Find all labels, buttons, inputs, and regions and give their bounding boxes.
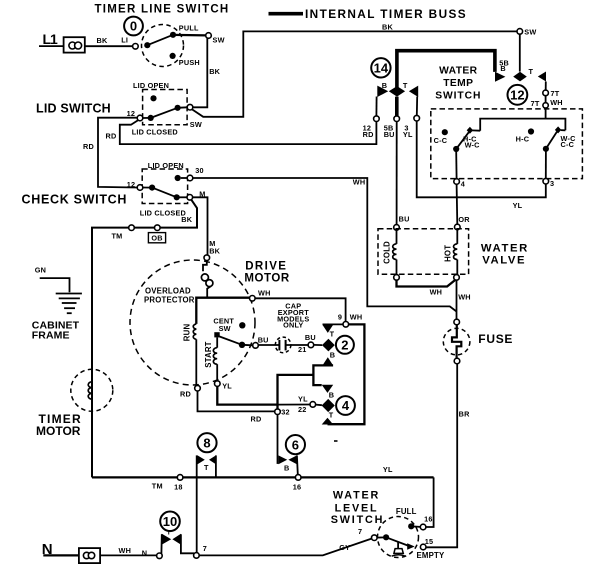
wire 3 YL to water temp switch 3 bbox=[417, 121, 546, 197]
label WH bbox=[119, 546, 132, 555]
svg-text:7T: 7T bbox=[531, 99, 540, 108]
label H-C bbox=[516, 134, 530, 143]
label W-C bbox=[465, 141, 481, 150]
svg-text:RD: RD bbox=[83, 142, 94, 151]
label C-C bbox=[434, 136, 448, 145]
svg-text:PUSH: PUSH bbox=[179, 58, 200, 67]
svg-text:B: B bbox=[284, 463, 289, 472]
svg-text:YL: YL bbox=[222, 382, 232, 391]
label BK bbox=[209, 67, 220, 76]
lid switch contact dot at SW bbox=[175, 105, 188, 111]
svg-text:EMPTY: EMPTY bbox=[417, 551, 445, 560]
svg-text:10: 10 bbox=[163, 514, 177, 529]
terminal BU (motor) bbox=[253, 343, 259, 349]
title FUSE bbox=[478, 332, 513, 346]
svg-text:LID CLOSED: LID CLOSED bbox=[140, 208, 186, 217]
wire BK timer SW down to lid switch bbox=[193, 38, 207, 107]
svg-text:SW: SW bbox=[213, 35, 225, 44]
cam number 0 bbox=[124, 17, 143, 36]
label 7 bbox=[358, 527, 362, 536]
svg-text:DRIVE: DRIVE bbox=[245, 260, 287, 272]
svg-text:OB: OB bbox=[151, 234, 162, 243]
svg-text:INTERNAL TIMER BUSS: INTERNAL TIMER BUSS bbox=[305, 7, 467, 21]
label L1 bbox=[43, 31, 59, 47]
cam 2 T contact triangle bbox=[323, 325, 334, 333]
ground symbol cabinet frame bbox=[56, 294, 82, 314]
svg-text:MOTOR: MOTOR bbox=[244, 272, 289, 284]
label H-C bbox=[463, 134, 477, 143]
wire fuse node vertical bbox=[456, 280, 458, 319]
stray dash bbox=[334, 440, 338, 442]
terminal 16 FULL bbox=[420, 524, 426, 530]
svg-text:16: 16 bbox=[424, 514, 433, 523]
svg-text:LID SWITCH: LID SWITCH bbox=[36, 101, 111, 115]
label HOT (rotated) bbox=[443, 245, 452, 262]
label RD bbox=[83, 142, 94, 151]
label BU bbox=[399, 215, 410, 224]
label 15 bbox=[425, 537, 434, 546]
wire RD lid 12 to timer cam 14 bbox=[120, 120, 377, 144]
label 9 bbox=[338, 313, 342, 322]
wire 32 down to cam 6 bbox=[277, 415, 279, 464]
drive motor dashed circle bbox=[130, 260, 255, 385]
svg-text:BU: BU bbox=[399, 215, 410, 224]
svg-text:FRAME: FRAME bbox=[32, 329, 70, 341]
svg-text:TIMER LINE SWITCH: TIMER LINE SWITCH bbox=[95, 4, 230, 16]
svg-text:CHECK SWITCH: CHECK SWITCH bbox=[22, 193, 128, 207]
cam 4 T contact triangle bbox=[322, 418, 334, 425]
svg-text:YL: YL bbox=[403, 130, 413, 139]
label LID OPEN bbox=[148, 161, 184, 170]
terminal 12 (lid switch) bbox=[137, 115, 143, 121]
run winding bbox=[193, 324, 196, 385]
wire 22 to junction bbox=[278, 404, 311, 406]
label T bbox=[167, 530, 171, 537]
cam 6 right contact flag bbox=[288, 455, 297, 464]
fuse dashed circle bbox=[443, 328, 470, 355]
svg-text:SWITCH: SWITCH bbox=[331, 514, 384, 526]
svg-text:12: 12 bbox=[510, 87, 524, 102]
label T bbox=[330, 330, 335, 339]
cam 12 T stub bbox=[545, 82, 547, 91]
svg-text:BK: BK bbox=[382, 22, 393, 31]
terminal 15 EMPTY bbox=[420, 544, 426, 550]
left switch arm bbox=[456, 132, 469, 149]
cam number 12 bbox=[508, 85, 528, 105]
title TIMER MOTOR bbox=[36, 412, 82, 438]
wire WH N block to cam 10 bbox=[100, 554, 156, 556]
svg-text:8: 8 bbox=[203, 435, 210, 450]
wire 7T into bar bbox=[545, 108, 547, 119]
wire M to motor (BK) bbox=[193, 197, 208, 255]
check switch contact dot at 12 bbox=[143, 185, 155, 191]
label T bbox=[403, 81, 408, 90]
svg-text:T: T bbox=[330, 330, 335, 339]
terminal SW (buss) bbox=[517, 29, 523, 35]
svg-text:YL: YL bbox=[513, 201, 523, 210]
cam 2 follower diamond bbox=[322, 339, 335, 352]
terminal cold bottom bbox=[394, 275, 400, 281]
svg-text:WH: WH bbox=[458, 292, 471, 301]
terminal 9 WH bbox=[343, 322, 349, 328]
label B bbox=[500, 64, 505, 73]
label C-C bbox=[561, 140, 575, 149]
bellows element bbox=[392, 542, 406, 556]
label WH bbox=[258, 289, 271, 298]
label 4 bbox=[461, 179, 466, 188]
label 12 bbox=[127, 180, 136, 189]
svg-text:BU: BU bbox=[305, 333, 316, 342]
svg-text:WH: WH bbox=[353, 177, 366, 186]
cam 12 B contact triangle bbox=[495, 72, 505, 82]
label 22 bbox=[298, 405, 307, 414]
svg-text:9: 9 bbox=[338, 313, 342, 322]
cam 4 B contact triangle bbox=[322, 385, 334, 393]
terminal block L1 bbox=[64, 37, 85, 52]
ground wire GN bbox=[40, 278, 70, 292]
full contact dot bbox=[408, 523, 420, 529]
label B bbox=[329, 390, 334, 399]
terminal 22 bbox=[310, 402, 316, 408]
wire RD motor to 32 bbox=[198, 391, 275, 411]
title WATER VALVE bbox=[481, 243, 529, 267]
wire 5B BU down to water valve bbox=[396, 122, 398, 225]
label 5B BU bbox=[384, 123, 395, 139]
wire 9 to cam 2 T bbox=[323, 323, 343, 325]
label LID OPEN bbox=[133, 81, 169, 90]
terminal 7T bbox=[543, 90, 549, 96]
label WH bbox=[458, 292, 471, 301]
terminal BU (water valve) bbox=[394, 225, 400, 231]
svg-text:T: T bbox=[329, 411, 334, 420]
cent switch arm bbox=[218, 336, 242, 345]
wire BK from L1 block to switch bbox=[85, 45, 133, 47]
svg-text:BK: BK bbox=[181, 215, 192, 224]
wire SW to cam 12 bbox=[519, 34, 521, 71]
svg-text:B: B bbox=[382, 81, 387, 90]
svg-text:RD: RD bbox=[363, 130, 374, 139]
left switch contact dot bbox=[453, 146, 459, 152]
svg-text:0: 0 bbox=[130, 19, 137, 34]
wire left contact to terminal 4 bbox=[455, 152, 457, 179]
svg-text:YL: YL bbox=[298, 395, 308, 404]
label 7T bbox=[551, 89, 560, 98]
svg-text:GN: GN bbox=[35, 266, 46, 275]
svg-text:7T: 7T bbox=[551, 89, 560, 98]
svg-text:SW: SW bbox=[219, 324, 231, 333]
svg-text:C-C: C-C bbox=[561, 140, 575, 149]
label COLD (rotated) bbox=[382, 241, 391, 264]
svg-text:BU: BU bbox=[258, 336, 269, 345]
cam 8 right contact flag bbox=[209, 455, 216, 464]
water level switch pivot dot bbox=[377, 534, 389, 540]
terminal 5B BU bbox=[394, 116, 400, 122]
wire TM from check M bbox=[92, 200, 197, 478]
cam 14 B contact triangle bbox=[377, 86, 388, 97]
fuse bottom terminal bbox=[454, 358, 460, 364]
svg-text:WH: WH bbox=[430, 287, 443, 296]
cam 8 left stub down to terminal 7 bbox=[196, 455, 198, 552]
cam number 14 bbox=[371, 58, 390, 77]
label BU bbox=[258, 336, 269, 345]
title TIMER LINE SWITCH bbox=[95, 4, 230, 16]
label T bbox=[329, 411, 334, 420]
timer motor coil bbox=[88, 382, 92, 399]
wire 9 right down to cam 4 T bbox=[328, 324, 365, 424]
label N bbox=[42, 541, 53, 558]
svg-text:30: 30 bbox=[195, 166, 204, 175]
wire cam2 B to cam4 B stair bbox=[313, 365, 333, 385]
cent switch open contact dot bbox=[239, 322, 245, 328]
svg-text:GY: GY bbox=[339, 543, 350, 552]
terminal SW (lid switch) bbox=[187, 104, 193, 110]
label WH bbox=[350, 313, 363, 322]
svg-text:21: 21 bbox=[298, 345, 307, 354]
title WATER LEVEL SWITCH bbox=[331, 490, 384, 527]
label YL bbox=[222, 382, 232, 391]
svg-text:COLD: COLD bbox=[382, 241, 391, 264]
right switch open contact dot H-C bbox=[528, 128, 534, 134]
title WATER TEMP SWITCH bbox=[435, 65, 481, 101]
svg-text:2: 2 bbox=[341, 337, 348, 352]
svg-text:4: 4 bbox=[461, 179, 466, 188]
svg-text:12: 12 bbox=[127, 109, 136, 118]
check switch open contact dot bbox=[175, 175, 188, 181]
cam 12 follower diamond bbox=[513, 72, 527, 82]
label 16 bbox=[424, 514, 433, 523]
svg-text:WATER: WATER bbox=[439, 65, 478, 76]
svg-text:4: 4 bbox=[342, 398, 350, 413]
svg-text:BK: BK bbox=[209, 246, 220, 255]
terminal 7T WH bbox=[543, 103, 548, 108]
wire N lead-in bbox=[43, 554, 79, 556]
svg-text:N: N bbox=[142, 549, 147, 558]
timer line switch dashed circle bbox=[142, 25, 184, 67]
wire BR fuse to 15 bbox=[426, 364, 457, 547]
svg-text:T: T bbox=[403, 81, 408, 90]
left switch open contact dot C-C bbox=[442, 129, 448, 135]
cam 12 T contact triangle bbox=[538, 72, 546, 82]
terminal 32 bbox=[275, 409, 281, 415]
label 5B bbox=[499, 58, 509, 67]
svg-text:SW: SW bbox=[190, 120, 202, 129]
label TM bbox=[152, 482, 163, 491]
label N bbox=[142, 549, 147, 558]
wire WH motor to 9 bbox=[255, 298, 346, 321]
terminal 21 bbox=[308, 342, 314, 348]
title INTERNAL TIMER BUSS bbox=[305, 7, 467, 21]
svg-text:18: 18 bbox=[174, 482, 183, 491]
label BR bbox=[459, 410, 470, 419]
contact dot PUSH bbox=[170, 53, 176, 59]
cam 14 common stub bbox=[395, 97, 399, 116]
label W-C bbox=[561, 134, 577, 143]
terminal 30 bbox=[187, 175, 193, 181]
neutral buss wire to water level switch bbox=[199, 539, 372, 556]
timer line switch arm bbox=[147, 35, 173, 45]
svg-text:WH: WH bbox=[258, 289, 271, 298]
wire stair to 32 node bbox=[278, 375, 314, 409]
label LID CLOSED bbox=[132, 127, 178, 136]
wire YL buss down to water level switch bbox=[426, 477, 434, 527]
label WH bbox=[430, 287, 443, 296]
title CABINET FRAME bbox=[32, 320, 80, 342]
svg-text:SW: SW bbox=[524, 27, 536, 36]
cold valve coil bbox=[393, 230, 397, 274]
label 7T bbox=[531, 99, 540, 108]
label BK bbox=[97, 36, 108, 45]
svg-text:MOTOR: MOTOR bbox=[36, 424, 81, 438]
svg-text:ONLY: ONLY bbox=[283, 321, 303, 330]
svg-text:22: 22 bbox=[298, 405, 307, 414]
label CENT SW bbox=[213, 317, 234, 333]
svg-text:T: T bbox=[167, 530, 171, 537]
label WH bbox=[550, 98, 563, 107]
cam number 10 bbox=[160, 512, 180, 532]
svg-text:BR: BR bbox=[459, 410, 470, 419]
label T bbox=[204, 463, 209, 472]
fuse top terminal bbox=[454, 319, 460, 325]
label OVERLOAD PROTECTOR bbox=[144, 287, 195, 305]
label YL bbox=[298, 395, 308, 404]
svg-text:TM: TM bbox=[152, 482, 163, 491]
fuse element bbox=[452, 325, 461, 358]
right switch pivot diamond bbox=[555, 126, 561, 133]
svg-text:16: 16 bbox=[293, 482, 302, 491]
label WH bbox=[353, 177, 366, 186]
label RD bbox=[180, 389, 191, 398]
left switch pivot link bbox=[472, 129, 480, 131]
lid switch contact dot at 12 bbox=[143, 115, 154, 121]
terminal on TM wire (OB) bbox=[155, 225, 161, 231]
left switch pivot diamond bbox=[467, 127, 473, 134]
svg-text:RD: RD bbox=[180, 389, 191, 398]
cam 8 right stub to buss bbox=[215, 455, 217, 477]
svg-text:7: 7 bbox=[358, 527, 362, 536]
empty contact arrow bbox=[407, 543, 415, 549]
svg-text:RD: RD bbox=[106, 131, 117, 140]
motor terminal M BK bbox=[204, 255, 210, 261]
cam 10 right contact flag bbox=[172, 534, 181, 545]
check switch dashed box bbox=[142, 169, 187, 204]
terminal block N bbox=[79, 548, 100, 563]
water temp switch bar bbox=[480, 119, 565, 131]
terminal N (cam 10) bbox=[157, 553, 163, 559]
motor top rail bbox=[196, 298, 249, 324]
hot valve coil bbox=[454, 230, 458, 275]
terminal on TM wire bbox=[129, 225, 135, 231]
label START (rotated) bbox=[204, 341, 213, 367]
cam 14 T stub bbox=[416, 97, 418, 116]
check switch arm bbox=[152, 188, 177, 198]
svg-text:HOT: HOT bbox=[443, 245, 452, 262]
label 16 bbox=[293, 482, 302, 491]
timer buss (bottom of timer) wire bbox=[92, 476, 434, 478]
svg-text:6: 6 bbox=[292, 437, 299, 452]
label 21 bbox=[298, 345, 307, 354]
cam number 8 bbox=[197, 433, 216, 452]
cam 14 B stub bbox=[375, 97, 377, 116]
svg-text:TM: TM bbox=[112, 231, 123, 240]
cent switch contact dot at BU bbox=[239, 342, 253, 348]
cam 4 follower diamond bbox=[322, 399, 335, 412]
cam 10 right stub bbox=[181, 534, 195, 554]
svg-text:3: 3 bbox=[550, 179, 554, 188]
label B bbox=[330, 350, 335, 359]
capacitor C (export models) bbox=[258, 337, 308, 353]
wire 22 to cam 4 bbox=[316, 404, 322, 407]
right switch pivot link bbox=[561, 129, 566, 131]
label RD bbox=[106, 131, 117, 140]
svg-text:LI: LI bbox=[121, 35, 128, 44]
svg-text:WATER: WATER bbox=[333, 490, 380, 502]
svg-text:LID OPEN: LID OPEN bbox=[133, 81, 169, 90]
svg-text:LEVEL: LEVEL bbox=[335, 502, 379, 514]
terminal WH (motor) bbox=[250, 296, 256, 302]
start winding bbox=[213, 337, 217, 380]
label RUN (rotated) bbox=[182, 324, 191, 342]
label 18 bbox=[174, 482, 183, 491]
svg-text:PROTECTOR: PROTECTOR bbox=[144, 296, 195, 305]
terminal RD (motor) bbox=[195, 385, 201, 391]
label M bbox=[199, 190, 205, 199]
label 30 bbox=[195, 166, 204, 175]
label SW bbox=[524, 27, 536, 36]
terminal 12 (check switch) bbox=[137, 185, 143, 191]
terminal 18 bbox=[177, 475, 183, 481]
water temp switch dashed box bbox=[431, 109, 583, 179]
label B bbox=[284, 463, 289, 472]
svg-text:BK: BK bbox=[97, 36, 108, 45]
internal timer buss legend line bbox=[269, 12, 304, 16]
svg-text:LID OPEN: LID OPEN bbox=[148, 161, 184, 170]
terminal 16 bbox=[295, 475, 301, 481]
label PULL bbox=[179, 24, 199, 33]
label 7 bbox=[203, 544, 207, 553]
terminal hot bottom bbox=[454, 275, 460, 281]
svg-text:B: B bbox=[330, 350, 335, 359]
svg-text:TEMP: TEMP bbox=[443, 78, 473, 89]
label OR bbox=[458, 215, 470, 224]
wire RD lid 12 to check 12 bbox=[98, 118, 137, 188]
svg-text:T: T bbox=[204, 463, 209, 472]
label T bbox=[529, 67, 534, 76]
timer line switch contact dot (common) bbox=[144, 42, 150, 48]
cam number 2 bbox=[336, 336, 354, 354]
wire WH check 30 to fuse node bbox=[193, 178, 457, 312]
cam 14 T contact triangle bbox=[409, 86, 418, 97]
svg-text:W-C: W-C bbox=[465, 141, 481, 150]
svg-text:FULL: FULL bbox=[396, 507, 417, 516]
svg-text:LID CLOSED: LID CLOSED bbox=[132, 127, 178, 136]
svg-text:14: 14 bbox=[374, 60, 389, 75]
label LID CLOSED bbox=[140, 208, 186, 217]
cam 6 left contact flag bbox=[278, 455, 287, 464]
wire 7T to box terminal bbox=[545, 96, 547, 103]
water level switch arm bbox=[386, 537, 409, 546]
cent switch pivot bbox=[214, 332, 219, 337]
cam 10 left contact flag bbox=[162, 534, 171, 545]
cam 14 follower diamond bbox=[389, 86, 405, 97]
terminal YL (motor) bbox=[215, 381, 221, 387]
svg-text:L1: L1 bbox=[43, 31, 59, 47]
water valve dashed box bbox=[378, 229, 469, 275]
cam 14 thick buss feed bbox=[397, 51, 495, 88]
svg-text:BK: BK bbox=[209, 67, 220, 76]
label SW bbox=[213, 35, 225, 44]
svg-text:H-C: H-C bbox=[516, 134, 530, 143]
svg-text:WH: WH bbox=[550, 98, 563, 107]
